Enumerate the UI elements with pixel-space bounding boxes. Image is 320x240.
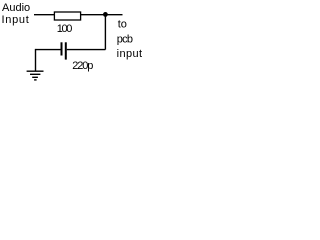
svg-text:Input: Input [2, 14, 30, 26]
svg-text:Audio: Audio [2, 2, 30, 14]
svg-text:220p: 220p [72, 60, 93, 72]
wire C1 left plate to ground riser [36, 49, 61, 51]
svg-text:100: 100 [57, 23, 72, 35]
resistor R1 body [54, 12, 80, 20]
ground symbol bar 4 [34, 79, 37, 81]
ground symbol bar 1 [27, 70, 44, 72]
wire from Audio Input to R1 [34, 14, 54, 16]
wire from R1 to node A and output stub [81, 14, 123, 16]
capacitor C1 right plate [65, 42, 67, 59]
node A junction dot [103, 12, 108, 17]
wire ground riser [35, 49, 37, 71]
svg-text:input: input [117, 48, 143, 60]
svg-text:to: to [118, 18, 127, 30]
ground symbol bar 2 [30, 73, 40, 75]
ground symbol bar 3 [32, 76, 38, 78]
capacitor C1 left plate [61, 42, 63, 55]
svg-text:pcb: pcb [117, 33, 133, 45]
wire node A down to C1 [104, 15, 106, 50]
wire C1 right plate to vertical wire [67, 49, 106, 51]
